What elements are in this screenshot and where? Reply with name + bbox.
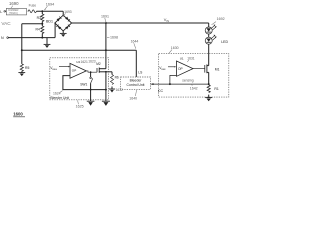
svg-text:1631: 1631 bbox=[187, 56, 195, 60]
svg-text:Fuse: Fuse bbox=[29, 3, 37, 7]
svg-text:SW1: SW1 bbox=[80, 82, 87, 86]
svg-text:VAC: VAC bbox=[1, 21, 11, 26]
svg-text:(TRIAC): (TRIAC) bbox=[9, 12, 18, 15]
svg-text:Bleeder: Bleeder bbox=[130, 78, 143, 82]
svg-text:R4: R4 bbox=[36, 28, 40, 32]
svg-text:1632: 1632 bbox=[116, 88, 124, 92]
svg-text:1623: 1623 bbox=[88, 60, 96, 64]
svg-text:1698: 1698 bbox=[110, 36, 118, 40]
svg-text:Control Unit: Control Unit bbox=[127, 83, 145, 87]
svg-text:Bleeder Unit: Bleeder Unit bbox=[50, 96, 69, 100]
svg-text:OP: OP bbox=[178, 67, 183, 71]
svg-text:R1: R1 bbox=[214, 87, 218, 91]
svg-text:VREF: VREF bbox=[159, 66, 166, 71]
svg-text:N: N bbox=[1, 36, 4, 40]
svg-text:1600: 1600 bbox=[13, 112, 23, 117]
svg-text:L: L bbox=[0, 10, 2, 14]
svg-text:R3: R3 bbox=[37, 16, 41, 20]
svg-text:1644: 1644 bbox=[131, 39, 139, 43]
svg-text:LS: LS bbox=[138, 71, 143, 75]
svg-text:OP: OP bbox=[72, 68, 76, 72]
svg-text:1624: 1624 bbox=[53, 91, 61, 95]
svg-text:U1: U1 bbox=[180, 57, 184, 61]
svg-text:1621: 1621 bbox=[81, 60, 89, 64]
svg-text:VREG: VREG bbox=[50, 66, 57, 71]
svg-text:R5: R5 bbox=[25, 66, 29, 70]
svg-text:1690: 1690 bbox=[9, 1, 19, 6]
svg-text:LED: LED bbox=[221, 40, 228, 44]
svg-text:1630: 1630 bbox=[171, 46, 179, 50]
svg-text:sensing: sensing bbox=[182, 79, 194, 83]
svg-text:1691: 1691 bbox=[101, 14, 109, 18]
svg-text:R6: R6 bbox=[115, 75, 119, 79]
svg-text:1640: 1640 bbox=[129, 97, 137, 101]
svg-text:VIN: VIN bbox=[164, 17, 169, 23]
svg-text:BD1: BD1 bbox=[46, 19, 53, 23]
svg-text:1693: 1693 bbox=[64, 10, 72, 14]
svg-text:1625: 1625 bbox=[76, 105, 84, 109]
svg-text:CC: CC bbox=[158, 89, 164, 93]
svg-text:1692: 1692 bbox=[217, 17, 225, 21]
svg-text:1694: 1694 bbox=[46, 3, 54, 7]
svg-text:M2: M2 bbox=[96, 62, 101, 66]
svg-text:M1: M1 bbox=[215, 67, 220, 71]
svg-text:1642: 1642 bbox=[190, 86, 198, 90]
